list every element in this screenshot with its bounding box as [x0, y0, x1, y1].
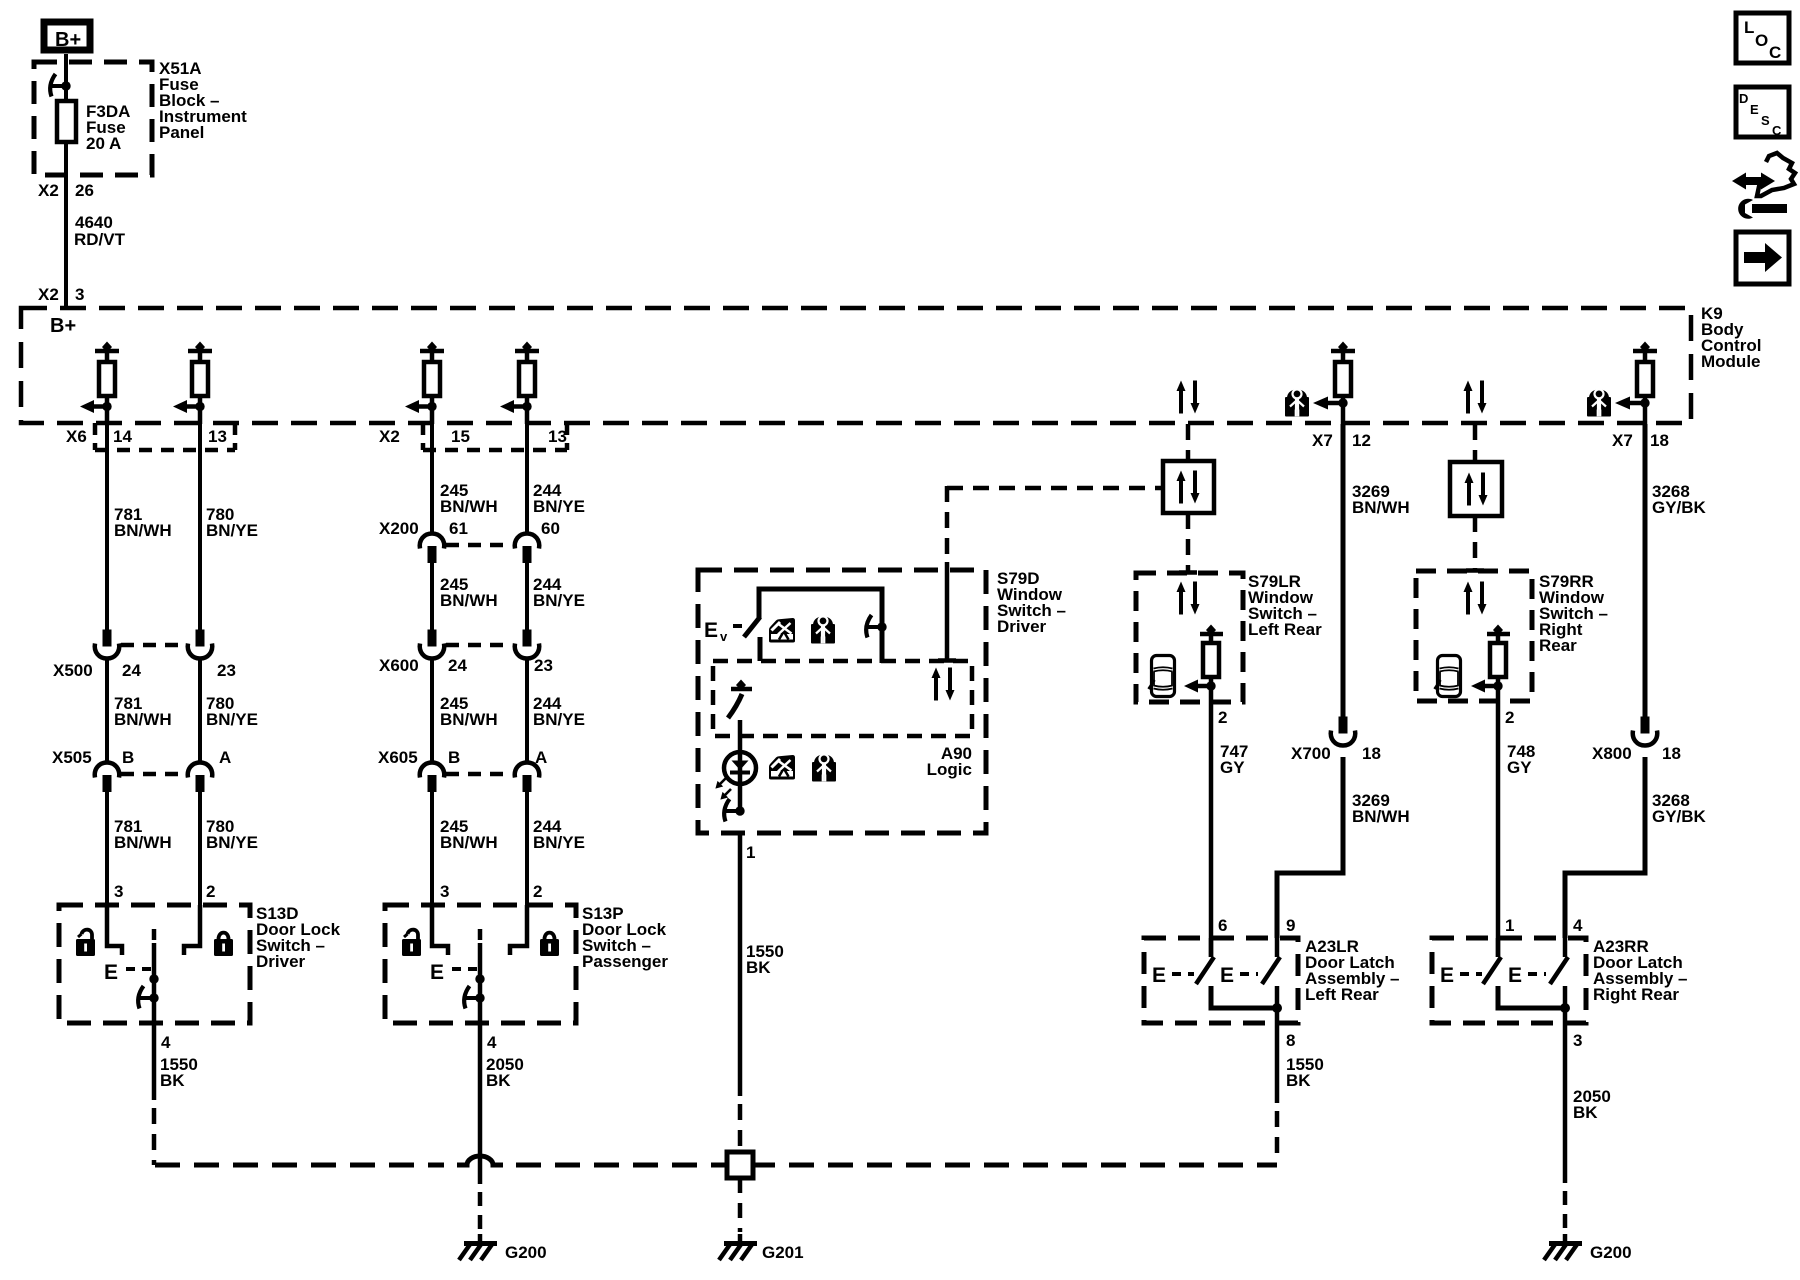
svg-text:4: 4 — [161, 1033, 171, 1052]
svg-text:E: E — [1750, 102, 1759, 117]
svg-text:E: E — [1440, 964, 1454, 987]
svg-text:26: 26 — [75, 181, 94, 200]
svg-text:1: 1 — [746, 843, 755, 862]
svg-text:X800: X800 — [1592, 744, 1632, 763]
svg-text:18: 18 — [1650, 431, 1669, 450]
svg-text:3: 3 — [1573, 1031, 1582, 1050]
svg-text:13: 13 — [208, 427, 227, 446]
svg-text:Right Rear: Right Rear — [1593, 985, 1679, 1004]
svg-text:Driver: Driver — [997, 617, 1047, 636]
svg-text:2: 2 — [1505, 708, 1514, 727]
svg-text:Logic: Logic — [927, 760, 972, 779]
svg-text:E: E — [1152, 964, 1166, 987]
svg-text:BN/WH: BN/WH — [1352, 498, 1410, 517]
svg-text:61: 61 — [449, 519, 468, 538]
svg-text:RD/VT: RD/VT — [74, 230, 126, 249]
svg-text:E: E — [1220, 964, 1234, 987]
svg-text:BN/YE: BN/YE — [206, 521, 258, 540]
svg-text:Left Rear: Left Rear — [1305, 985, 1379, 1004]
svg-text:O: O — [1755, 31, 1768, 50]
svg-text:X2: X2 — [38, 181, 59, 200]
svg-text:D: D — [1739, 91, 1748, 106]
svg-text:BK: BK — [486, 1071, 511, 1090]
svg-text:4: 4 — [487, 1033, 497, 1052]
svg-text:12: 12 — [1352, 431, 1371, 450]
svg-text:Left Rear: Left Rear — [1248, 620, 1322, 639]
svg-text:X600: X600 — [379, 656, 419, 675]
svg-text:20 A: 20 A — [86, 134, 121, 153]
svg-text:A: A — [219, 748, 231, 767]
svg-text:2: 2 — [1218, 708, 1227, 727]
svg-text:BN/WH: BN/WH — [440, 833, 498, 852]
svg-text:15: 15 — [451, 427, 470, 446]
svg-text:S: S — [1761, 113, 1770, 128]
svg-text:BK: BK — [746, 958, 771, 977]
svg-text:3: 3 — [114, 882, 123, 901]
svg-text:3: 3 — [75, 285, 84, 304]
svg-text:BK: BK — [160, 1071, 185, 1090]
svg-text:Panel: Panel — [159, 123, 204, 142]
svg-text:BN/YE: BN/YE — [533, 710, 585, 729]
svg-text:14: 14 — [113, 427, 132, 446]
svg-text:13: 13 — [548, 427, 567, 446]
svg-text:X2: X2 — [379, 427, 400, 446]
svg-text:BN/WH: BN/WH — [440, 591, 498, 610]
svg-text:C: C — [1769, 43, 1781, 62]
svg-text:X505: X505 — [52, 748, 92, 767]
svg-text:X200: X200 — [379, 519, 419, 538]
svg-text:X605: X605 — [378, 748, 418, 767]
svg-text:X700: X700 — [1291, 744, 1331, 763]
svg-text:Rear: Rear — [1539, 636, 1577, 655]
svg-text:B: B — [122, 748, 134, 767]
svg-text:B+: B+ — [50, 315, 76, 337]
svg-text:Driver: Driver — [256, 952, 306, 971]
svg-text:60: 60 — [541, 519, 560, 538]
svg-text:L: L — [1744, 18, 1754, 37]
svg-text:24: 24 — [448, 656, 467, 675]
svg-text:X7: X7 — [1312, 431, 1333, 450]
svg-text:E: E — [704, 619, 718, 642]
svg-text:E: E — [104, 961, 118, 984]
svg-text:A: A — [535, 748, 547, 767]
svg-text:X6: X6 — [66, 427, 87, 446]
svg-text:C: C — [1772, 123, 1782, 138]
svg-text:24: 24 — [122, 661, 141, 680]
svg-text:BN/WH: BN/WH — [1352, 807, 1410, 826]
svg-text:X500: X500 — [53, 661, 93, 680]
svg-text:3: 3 — [440, 882, 449, 901]
svg-text:8: 8 — [1286, 1031, 1295, 1050]
svg-text:BN/YE: BN/YE — [206, 710, 258, 729]
svg-text:1: 1 — [1505, 916, 1514, 935]
svg-text:6: 6 — [1218, 916, 1227, 935]
svg-text:E: E — [1508, 964, 1522, 987]
svg-text:BN/YE: BN/YE — [533, 833, 585, 852]
svg-text:B: B — [448, 748, 460, 767]
svg-text:Module: Module — [1701, 352, 1761, 371]
svg-text:23: 23 — [534, 656, 553, 675]
svg-text:BN/WH: BN/WH — [114, 833, 172, 852]
svg-text:2: 2 — [533, 882, 542, 901]
svg-text:X2: X2 — [38, 285, 59, 304]
svg-text:GY: GY — [1507, 758, 1532, 777]
svg-text:BN/WH: BN/WH — [114, 710, 172, 729]
svg-text:Passenger: Passenger — [582, 952, 668, 971]
svg-text:E: E — [430, 961, 444, 984]
svg-text:18: 18 — [1662, 744, 1681, 763]
svg-text:GY/BK: GY/BK — [1652, 807, 1707, 826]
svg-text:BN/YE: BN/YE — [533, 591, 585, 610]
svg-text:2: 2 — [206, 882, 215, 901]
svg-text:BN/WH: BN/WH — [440, 710, 498, 729]
svg-text:G200: G200 — [505, 1243, 547, 1262]
svg-text:BK: BK — [1286, 1071, 1311, 1090]
svg-text:BN/WH: BN/WH — [440, 497, 498, 516]
svg-text:v: v — [720, 629, 728, 644]
svg-text:GY/BK: GY/BK — [1652, 498, 1707, 517]
svg-text:23: 23 — [217, 661, 236, 680]
svg-text:B+: B+ — [55, 29, 81, 51]
svg-text:BN/YE: BN/YE — [206, 833, 258, 852]
svg-text:X7: X7 — [1612, 431, 1633, 450]
svg-text:4: 4 — [1573, 916, 1583, 935]
svg-text:G200: G200 — [1590, 1243, 1632, 1262]
svg-text:BK: BK — [1573, 1103, 1598, 1122]
svg-text:9: 9 — [1286, 916, 1295, 935]
svg-text:G201: G201 — [762, 1243, 804, 1262]
svg-text:BN/YE: BN/YE — [533, 497, 585, 516]
svg-text:18: 18 — [1362, 744, 1381, 763]
svg-text:BN/WH: BN/WH — [114, 521, 172, 540]
svg-text:GY: GY — [1220, 758, 1245, 777]
